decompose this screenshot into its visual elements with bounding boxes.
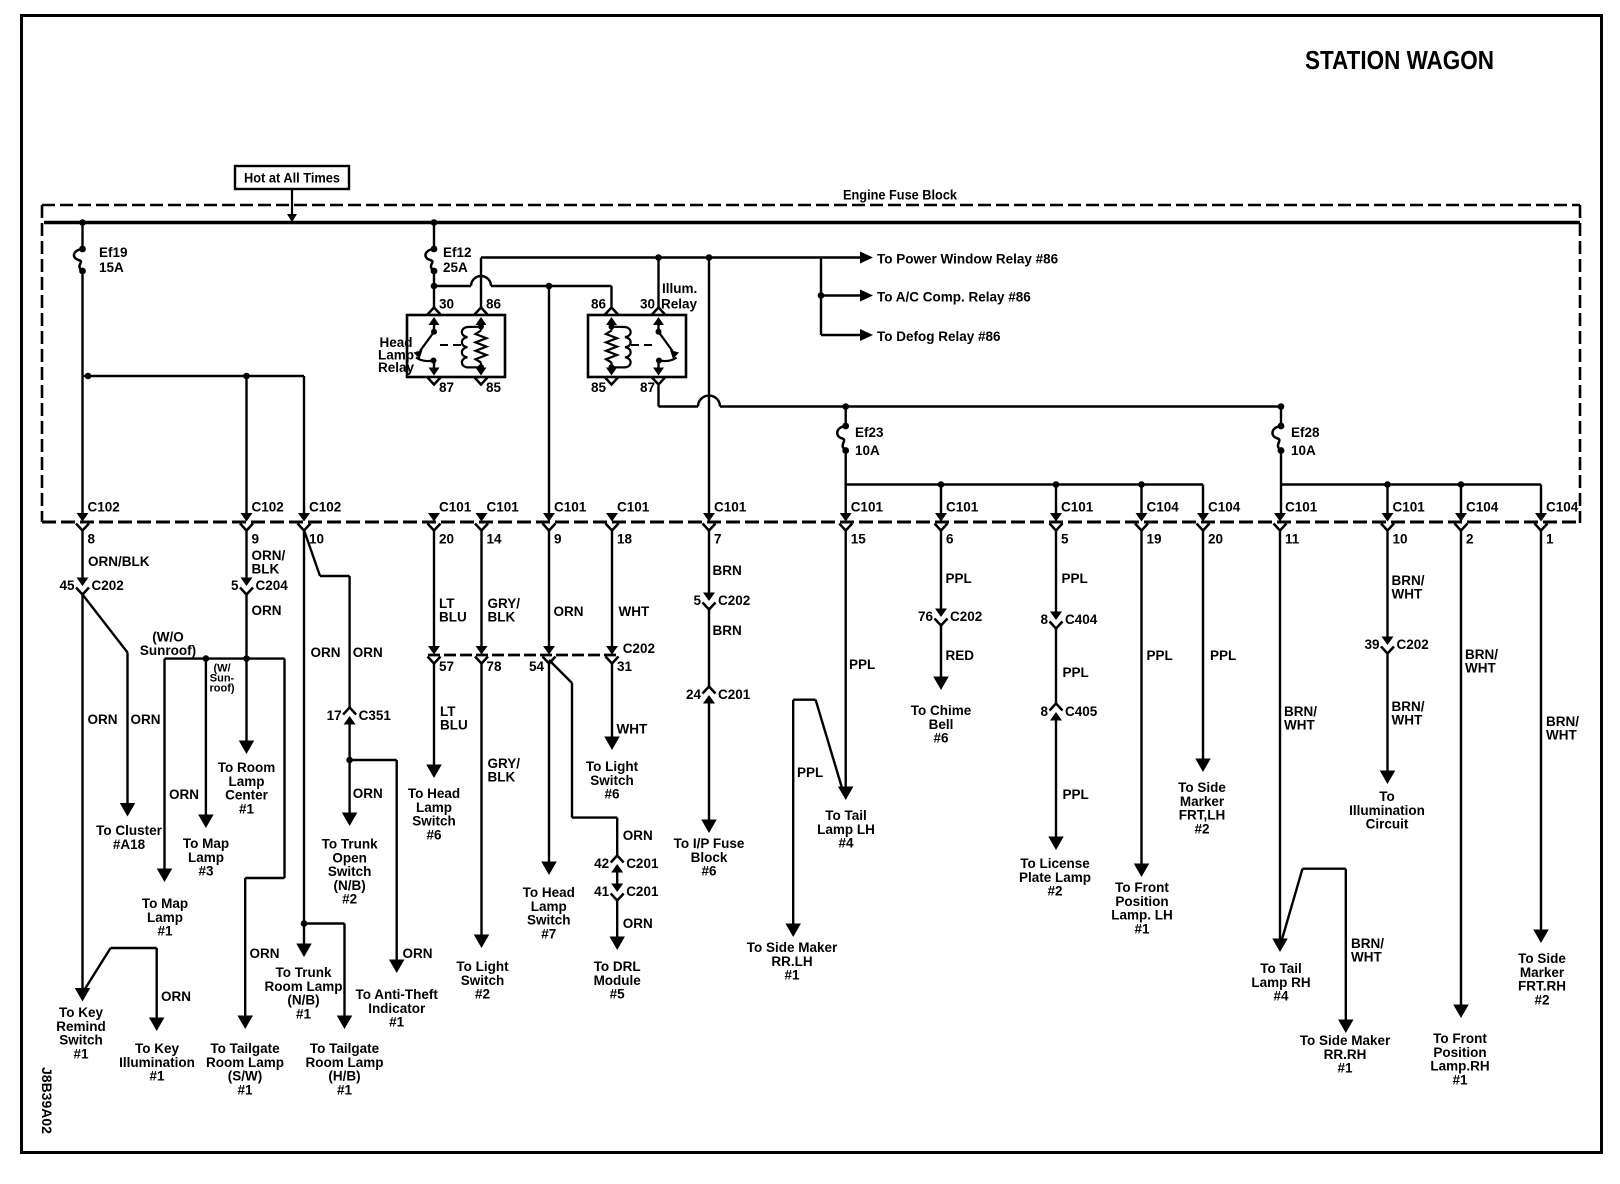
svg-text:To Key: To Key [135,1041,179,1056]
connector C202 pin 76 [918,609,982,626]
head lamp relay coil [462,324,487,371]
wire column C102-10 upper [303,376,305,514]
svg-text:Marker: Marker [1520,965,1565,980]
svg-text:ORN: ORN [169,787,199,802]
distribution wire left group [846,481,1203,488]
fuse Ef23 10A [837,403,884,458]
wire C202-78 to light switch 2 [482,663,521,940]
svg-text:Switch: Switch [590,773,634,788]
svg-text:Lamp RH: Lamp RH [1251,975,1310,990]
wire column 20 to C202-57 [434,530,467,646]
svg-text:C104: C104 [1546,500,1579,515]
connector dashed row [42,521,1580,524]
svg-text:roof): roof) [209,683,234,695]
svg-text:17: 17 [327,708,342,723]
arrow To Side Marker FRT.RH #2 [1518,930,1566,1008]
Engine Fuse Block label [843,188,957,203]
svg-text:Room Lamp: Room Lamp [305,1055,383,1070]
svg-text:C104: C104 [1466,500,1499,515]
wire branch to cluster [83,595,161,804]
illum relay switch arm [656,329,680,364]
svg-text:C101: C101 [1393,500,1426,515]
arrow To Tailgate Room Lamp (H/B) #1 [305,1016,383,1098]
svg-text:To Defog Relay #86: To Defog Relay #86 [877,329,1001,344]
svg-text:BLU: BLU [440,718,468,733]
arrow To Chime Bell #6 [911,677,972,746]
svg-text:To Tail: To Tail [825,808,867,823]
wire Ef12 to relay pin 30 [433,271,435,308]
svg-text:30: 30 [439,297,454,312]
Engine Fuse Block dashed outline right [1579,205,1582,523]
wire between C201 pins [616,866,618,884]
head lamp relay pin 85 [475,367,502,395]
connector C101 pin 6 [935,500,979,547]
svg-text:#2: #2 [342,892,357,907]
svg-text:RR.RH: RR.RH [1324,1047,1367,1062]
wire C201-24 to I/P fuse block [708,704,710,826]
connector C202 pin 45 [59,578,123,595]
wire Ef28 to C101-11 [1280,451,1282,514]
connector C101 pin 10 [1381,500,1425,547]
svg-text:To Tailgate: To Tailgate [210,1041,280,1056]
svg-text:WHT: WHT [1351,950,1382,965]
svg-text:Lamp LH: Lamp LH [817,822,875,837]
drawing number J8B39A02 (rotated) [39,1067,55,1134]
wire head lamp relay pin 86 riser [480,258,482,308]
svg-text:Room Lamp: Room Lamp [264,979,342,994]
svg-text:ORN: ORN [131,712,161,727]
svg-text:C101: C101 [439,500,472,515]
svg-text:42: 42 [594,856,609,871]
svg-text:To DRL: To DRL [594,959,641,974]
svg-text:To Power Window Relay #86: To Power Window Relay #86 [877,252,1059,267]
wire drop C104-20 [1202,485,1204,514]
wire column 14 to C202-78 [482,530,521,646]
arrow To Trunk Open Switch (N/B) #2 [322,813,378,907]
svg-text:Lamp.RH: Lamp.RH [1430,1059,1489,1074]
svg-text:C202: C202 [92,578,124,593]
wire column 6 below row [941,530,972,609]
arrow To Tail Lamp RH #4 [1251,939,1310,1004]
svg-text:87: 87 [640,380,655,395]
svg-text:54: 54 [529,659,545,674]
svg-text:10: 10 [1393,532,1408,547]
connector C104 pin 2 [1455,500,1499,547]
wire C201-41 to DRL module [617,900,653,942]
svg-text:ORN: ORN [250,946,280,961]
connector C102 pin 9 [240,500,284,547]
svg-text:Switch: Switch [461,973,505,988]
svg-text:PPL: PPL [946,571,972,586]
svg-text:Lamp: Lamp [416,800,452,815]
svg-text:2: 2 [1466,532,1474,547]
sunroof option bracket wire [140,630,285,695]
svg-text:Indicator: Indicator [368,1001,426,1016]
svg-text:#2: #2 [1194,821,1209,836]
svg-text:BRN: BRN [713,623,742,638]
arrow To Map Lamp #3 [183,815,229,879]
svg-text:C202: C202 [1397,637,1429,652]
arrow To Light Switch #6 [586,737,639,802]
svg-text:15A: 15A [99,260,124,275]
svg-text:87: 87 [439,380,454,395]
wire drop C101-10 [1386,485,1388,514]
svg-text:To Trunk: To Trunk [276,965,332,980]
svg-text:ORN: ORN [403,946,433,961]
svg-text:ORN: ORN [554,604,584,619]
svg-text:#1: #1 [389,1015,405,1030]
svg-text:86: 86 [591,297,607,312]
svg-text:C101: C101 [554,500,587,515]
node column C101-7 junction [706,254,713,261]
connector C101 pin 11 [1274,500,1318,547]
svg-text:#1: #1 [1337,1061,1353,1076]
connector C351 pin 17 [327,708,392,725]
svg-text:#3: #3 [198,864,214,879]
connector C201 pin 24 [686,687,751,704]
svg-text:WHT: WHT [617,722,648,737]
svg-text:#1: #1 [296,1006,312,1021]
svg-text:(H/B): (H/B) [328,1069,360,1084]
title STATION WAGON [1305,47,1494,75]
head lamp relay pin 86 [475,297,502,328]
svg-text:ORN: ORN [623,828,653,843]
svg-text:WHT: WHT [619,604,650,619]
svg-text:8: 8 [1040,612,1048,627]
svg-text:Block: Block [691,850,728,865]
svg-text:To Room: To Room [218,760,276,775]
svg-text:To Anti-Theft: To Anti-Theft [355,987,438,1002]
illum relay pin 85 [591,367,618,395]
svg-text:Switch: Switch [59,1033,103,1048]
svg-text:C204: C204 [256,578,289,593]
connector C104 pin 1 [1535,500,1579,547]
wire C202-57 to head lamp switch 6 [434,663,468,770]
svg-text:24: 24 [686,687,702,702]
relay box Illum Relay [588,281,698,377]
svg-text:C101: C101 [1285,500,1318,515]
svg-text:To Map: To Map [183,836,229,851]
svg-text:86: 86 [486,297,502,312]
arrow To Head Lamp Switch #6 [408,765,460,843]
wire from Hot at All Times box to bus [287,189,297,222]
wire branch to tailgate H/B [304,924,345,1022]
svg-text:Position: Position [1433,1045,1486,1060]
svg-text:39: 39 [1364,637,1379,652]
connector C104 pin 19 [1135,500,1179,547]
svg-text:Ef12: Ef12 [443,245,472,260]
svg-text:To Front: To Front [1433,1031,1487,1046]
wire C202-31 to light switch 6 [612,663,648,742]
wire C405 to license plate lamp [1056,721,1089,843]
arrow To Map Lamp #1 [142,869,188,939]
svg-text:#2: #2 [475,987,490,1002]
svg-text:Hot at All Times: Hot at All Times [244,171,340,186]
svg-text:9: 9 [554,532,562,547]
wire drop C104-19 [1140,485,1142,514]
svg-text:ORN: ORN [353,786,383,801]
arrow To Room Lamp Center #1 [218,741,276,817]
svg-text:BLU: BLU [439,610,467,625]
wire C404 to C405 [1056,629,1089,705]
connector C405 pin 8 [1040,704,1097,721]
svg-text:#1: #1 [149,1069,165,1084]
svg-text:PPL: PPL [1063,665,1089,680]
arrow To Cluster #A18 [96,803,162,852]
svg-text:To Head: To Head [523,885,575,900]
svg-text:Ef19: Ef19 [99,245,128,260]
svg-text:BLK: BLK [488,770,516,785]
svg-text:76: 76 [918,609,934,624]
svg-text:C104: C104 [1147,500,1180,515]
svg-text:#1: #1 [1452,1072,1468,1087]
svg-text:To Light: To Light [456,959,509,974]
arrow To Illumination Circuit [1349,771,1425,832]
svg-text:15: 15 [851,532,867,547]
svg-text:C101: C101 [946,500,979,515]
svg-text:WHT: WHT [1546,728,1577,743]
svg-text:#1: #1 [784,968,800,983]
svg-text:BLK: BLK [252,562,280,577]
head lamp relay link dashes [440,344,461,346]
wire column 8 below row [83,530,150,578]
svg-text:#1: #1 [337,1082,353,1097]
svg-text:41: 41 [594,884,610,899]
svg-text:C101: C101 [1061,500,1094,515]
wire relay branch drop [818,258,825,336]
wire column 5 below row [1056,530,1088,612]
svg-text:BRN: BRN [713,563,742,578]
connector C202 pin 78 [475,646,502,674]
wire C202-39 to illumination circuit [1388,654,1425,777]
svg-text:#6: #6 [426,827,442,842]
arrow To Front Position Lamp. LH #1 [1111,864,1173,937]
svg-text:RR.LH: RR.LH [771,954,812,969]
wire C202-45 to Key Remind Switch [83,595,118,990]
power bus wire [44,221,1580,225]
svg-text:Lamp: Lamp [147,910,183,925]
svg-text:C404: C404 [1065,612,1098,627]
svg-text:To Tail: To Tail [1260,961,1302,976]
svg-text:BLK: BLK [488,610,516,625]
connector C102 pin 10 [298,500,342,547]
svg-text:5: 5 [231,578,239,593]
wire Illum relay pin 30 riser [657,258,659,308]
svg-text:#2: #2 [1047,884,1062,899]
arrow To Side Marker FRT,LH #2 [1178,759,1226,837]
illum relay pin 87 [640,361,665,396]
wire column 2 to front position lamp RH [1461,530,1498,1010]
svg-text:To Trunk: To Trunk [322,837,378,852]
svg-text:WHT: WHT [1392,713,1423,728]
connector C104 pin 20 [1197,500,1241,547]
connector C202 pin 54 [529,646,556,674]
wire to A/C Comp Relay [821,290,1031,305]
wire branch to anti-theft [350,760,433,965]
wire column C101-9 upper [548,286,550,514]
svg-text:Plate Lamp: Plate Lamp [1019,870,1091,885]
svg-text:C201: C201 [626,856,659,871]
svg-text:To A/C Comp. Relay #86: To A/C Comp. Relay #86 [877,290,1031,305]
svg-text:14: 14 [487,532,503,547]
connector C102 pin 8 [76,500,120,547]
Hot at All Times box [235,166,349,189]
wire C351 to trunk open switch [346,725,382,819]
svg-text:Marker: Marker [1180,794,1225,809]
svg-text:ORN: ORN [311,645,341,660]
svg-text:ORN/BLK: ORN/BLK [88,554,150,569]
svg-text:57: 57 [439,659,454,674]
wire C202-54 to head lamp switch 7 [548,663,550,867]
wire drop C104-1 [1540,485,1542,514]
svg-text:#1: #1 [73,1046,89,1061]
wire column 15 to tail lamp LH [846,530,876,792]
connector C101 pin 18 [606,500,650,547]
svg-text:Lamp: Lamp [531,899,567,914]
wire drop C101-6 [940,485,942,514]
wire column 9 below row [247,530,286,578]
arrow To Front Position Lamp.RH #1 [1430,1005,1489,1088]
svg-text:10A: 10A [1291,443,1316,458]
wire branch to side maker RR RH [1282,869,1385,1025]
connector C202 pin 57 [428,646,455,674]
wire column 10 below row [301,530,341,927]
arrow To Tailgate Room Lamp (S/W) #1 [206,1016,284,1098]
svg-text:Ef28: Ef28 [1291,425,1320,440]
svg-text:Switch: Switch [412,814,456,829]
svg-text:#4: #4 [838,836,854,851]
svg-text:C202: C202 [623,641,655,656]
connector C101 pin 5 [1050,500,1094,547]
svg-text:WHT: WHT [1392,587,1423,602]
relay box Head Lamp Relay [378,315,505,377]
svg-text:PPL: PPL [797,765,823,780]
svg-text:C101: C101 [617,500,650,515]
svg-text:Ef23: Ef23 [855,425,884,440]
arrow To DRL Module #5 [594,937,642,1002]
illum relay link dashes [631,344,652,346]
svg-text:9: 9 [252,532,260,547]
wire column 19 to front position lamp LH [1142,530,1173,869]
svg-text:C102: C102 [309,500,341,515]
svg-text:To Key: To Key [59,1005,103,1020]
node Illum relay pin 30 junction [655,254,662,261]
svg-text:Circuit: Circuit [1366,817,1409,832]
wire column 10 below row [1388,530,1425,637]
svg-text:PPL: PPL [1063,787,1089,802]
svg-text:C102: C102 [252,500,284,515]
wire column 11 to tail lamp RH [1280,530,1317,944]
svg-text:7: 7 [714,532,722,547]
svg-text:C101: C101 [851,500,884,515]
arrow To Trunk Room Lamp (N/B) #1 [264,944,342,1022]
svg-text:Illumination: Illumination [1349,803,1425,818]
svg-text:C101: C101 [714,500,747,515]
svg-text:#5: #5 [610,987,626,1002]
svg-text:C101: C101 [487,500,520,515]
connector C201 pin 41 [594,884,659,901]
connector C202 pin 31 [606,646,633,674]
svg-text:85: 85 [486,380,502,395]
svg-text:PPL: PPL [849,657,875,672]
svg-text:Illumination: Illumination [119,1055,195,1070]
connector C204 pin 5 [231,578,288,595]
wire Ef19 to C102-8 [81,271,83,514]
svg-text:Relay: Relay [378,360,415,375]
svg-text:Switch: Switch [527,913,571,928]
svg-text:Remind: Remind [56,1019,106,1034]
wire drop C101-5 [1055,485,1057,514]
wire 86 bus to relays distribution [481,256,821,258]
wire C202-5 to C201-24 [709,610,742,688]
svg-text:WHT: WHT [1465,661,1496,676]
connector C201 pin 42 [594,856,659,873]
svg-text:#1: #1 [157,924,173,939]
svg-text:30: 30 [640,297,655,312]
svg-text:C351: C351 [359,708,392,723]
wire column 10 to trunk room lamp N/B [303,924,305,950]
fuse Ef12 25A [425,219,471,275]
svg-text:To Side: To Side [1518,951,1566,966]
svg-text:ORN: ORN [623,916,653,931]
arrow To Head Lamp Switch #7 [523,862,575,942]
svg-text:Module: Module [594,973,642,988]
connector C202 dashed row [428,641,655,656]
wire column 20 to side marker FRT LH [1203,530,1236,764]
svg-text:STATION WAGON: STATION WAGON [1305,47,1494,75]
wire column 9 to C202-54 [549,530,584,646]
svg-text:6: 6 [946,532,954,547]
arrow To Key Remind Switch #1 [56,988,106,1061]
svg-text:RED: RED [946,648,975,663]
svg-text:To: To [1379,789,1395,804]
svg-text:To Chime: To Chime [911,703,972,718]
wire branch from Ef19 feed to columns 9 and 10 [83,373,305,380]
svg-text:20: 20 [439,532,454,547]
svg-text:Illum.: Illum. [662,281,697,296]
arrow To Anti-Theft Indicator #1 [355,960,438,1030]
illum relay pin 30 [640,297,665,332]
svg-text:To Front: To Front [1115,880,1169,895]
svg-text:(N/B): (N/B) [333,878,365,893]
svg-text:#1: #1 [237,1082,253,1097]
svg-text:FRT.RH: FRT.RH [1518,979,1566,994]
wire drop C104-2 [1460,485,1462,514]
svg-text:31: 31 [617,659,633,674]
svg-text:To License: To License [1020,856,1090,871]
svg-text:C405: C405 [1065,704,1098,719]
svg-text:5: 5 [693,593,701,608]
Engine Fuse Block dashed outline left [41,205,44,522]
wire column C102-9 upper [245,376,247,514]
arrow To Side Maker RR.LH #1 [747,924,838,983]
wire column 7 below row [709,530,742,593]
connector C101 pin 15 [839,500,883,547]
distribution wire right group [1281,481,1541,488]
svg-text:Room Lamp: Room Lamp [206,1055,284,1070]
connector C202 pin 39 [1364,637,1428,654]
wire column 1 to side marker FRT RH [1541,530,1579,935]
arrow To I/P Fuse Block #6 [674,820,745,879]
svg-text:C201: C201 [626,884,659,899]
svg-text:Position: Position [1115,894,1168,909]
svg-text:8: 8 [1040,704,1048,719]
svg-text:85: 85 [591,380,607,395]
svg-text:To I/P Fuse: To I/P Fuse [674,836,745,851]
arrow To Tail Lamp LH #4 [817,787,875,851]
svg-text:25A: 25A [443,260,468,275]
svg-text:Center: Center [225,788,269,803]
